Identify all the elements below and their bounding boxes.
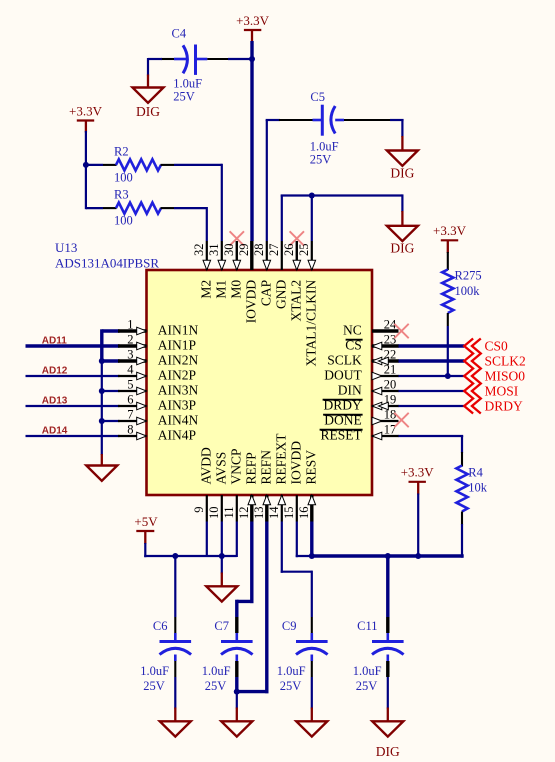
ground (C7) — [221, 708, 252, 737]
wire AD12 (pin 4) — [26, 375, 120, 377]
pin 8 AIN4P — [118, 423, 196, 443]
svg-text:C6: C6 — [153, 619, 168, 633]
svg-text:R3: R3 — [114, 188, 129, 202]
svg-text:AIN1N: AIN1N — [158, 323, 199, 338]
svg-text:AIN2N: AIN2N — [158, 353, 199, 368]
wire C6 top lead — [174, 556, 176, 641]
svg-text:AD13: AD13 — [42, 396, 68, 407]
svg-text:SCLK: SCLK — [327, 353, 362, 368]
power +3.3V (R275) — [433, 223, 467, 253]
wire R275 bottom lead to MISO0 net — [447, 313, 449, 376]
wire pin 3 to bus — [102, 359, 120, 362]
pin 22 SCLK — [327, 348, 398, 368]
resistor R4 10k — [456, 466, 487, 512]
svg-text:1.0uF: 1.0uF — [277, 664, 306, 678]
svg-text:M2: M2 — [198, 280, 213, 299]
svg-text:26: 26 — [282, 244, 296, 257]
wire AVSS ground stub — [221, 556, 223, 574]
capacitor C11 — [353, 619, 404, 693]
ground DIG (C4) — [133, 75, 164, 120]
wire C4 right lead — [197, 58, 253, 61]
svg-text:100: 100 — [114, 214, 133, 228]
svg-text:DIG: DIG — [390, 166, 414, 181]
wire pin 16 (RESV) down to bus — [310, 522, 313, 557]
svg-text:MOSI: MOSI — [485, 383, 519, 398]
wire C5 left lead — [279, 119, 322, 121]
svg-text:9: 9 — [192, 507, 206, 513]
ground (input bus) — [86, 454, 117, 481]
wire pin 1 to ground bus (thick) — [102, 329, 120, 361]
svg-text:1.0uF: 1.0uF — [140, 664, 169, 678]
no-connect X pin 18 — [394, 413, 408, 427]
wire DRDY (pin 19) — [398, 405, 464, 407]
wire C9 bottom lead — [310, 655, 313, 709]
node junction AVSS ground — [219, 553, 225, 559]
svg-text:6: 6 — [127, 393, 133, 407]
svg-text:20: 20 — [384, 378, 397, 392]
wire pin 9 (AVDD) down to bus — [206, 522, 208, 558]
svg-text:3: 3 — [127, 348, 133, 362]
capacitor C9 — [277, 619, 328, 693]
wire R4 top lead — [461, 452, 463, 467]
svg-text:U13: U13 — [55, 240, 77, 255]
wire +5V bus to pin 9 — [144, 555, 237, 557]
svg-text:1.0uF: 1.0uF — [310, 139, 339, 153]
wire C11 bottom lead — [386, 655, 389, 709]
svg-text:AIN4N: AIN4N — [158, 413, 199, 428]
node junction C11 / bus — [385, 553, 391, 559]
ground (C6) — [160, 708, 191, 737]
svg-text:16: 16 — [297, 507, 311, 520]
wire GND net down to DIG — [401, 194, 403, 212]
ground DIG (C5) — [387, 136, 418, 181]
pin 15 IOVDD — [282, 441, 304, 522]
capacitor C5 — [310, 90, 339, 166]
svg-text:4: 4 — [127, 363, 134, 377]
svg-text:12: 12 — [237, 507, 251, 520]
wire R3 left lead — [86, 207, 117, 209]
pin 12 REFP — [237, 452, 259, 521]
svg-text:AVDD: AVDD — [199, 447, 214, 485]
wire C11 top lead — [386, 556, 389, 641]
pin 32 M2 — [192, 241, 214, 299]
svg-text:7: 7 — [127, 408, 133, 422]
wire C5 right lead — [335, 120, 403, 137]
wire ground bus (thin part) — [101, 361, 103, 455]
svg-text:REFEXT: REFEXT — [274, 433, 289, 485]
capacitor C6 — [140, 619, 191, 693]
svg-text:R4: R4 — [468, 466, 483, 480]
svg-text:AIN3P: AIN3P — [158, 398, 196, 413]
svg-text:AD12: AD12 — [42, 366, 68, 377]
svg-text:1: 1 — [127, 318, 133, 332]
pin 25 XTAL1/CLKIN — [297, 241, 319, 366]
no-connect X pin 30 — [230, 231, 244, 245]
svg-text:XTAL2: XTAL2 — [288, 280, 303, 322]
svg-text:DIG: DIG — [136, 104, 160, 119]
wire R4 bottom lead to IOVDD bus — [461, 512, 463, 558]
svg-text:10k: 10k — [468, 481, 488, 495]
wire pin 11 (VNCP) down — [236, 522, 238, 558]
wire C7 bottom lead — [236, 655, 239, 692]
svg-text:DOUT: DOUT — [324, 368, 362, 383]
svg-text:IOVDD: IOVDD — [289, 441, 304, 485]
capacitor C7 — [202, 619, 253, 693]
svg-text:+5V: +5V — [134, 514, 158, 529]
pin 27 GND — [267, 241, 289, 309]
no-connect X pin 24 — [394, 324, 408, 338]
svg-text:18: 18 — [384, 408, 397, 422]
svg-text:AD11: AD11 — [42, 336, 67, 347]
wire pin 14 (REFEXT) down to C9 — [281, 522, 312, 642]
wire AD11 (pin 2) — [26, 344, 120, 347]
svg-text:21: 21 — [384, 363, 397, 377]
svg-text:25V: 25V — [205, 679, 227, 693]
svg-text:31: 31 — [207, 244, 221, 257]
wire C7 ground stub — [236, 692, 238, 709]
svg-text:25: 25 — [297, 244, 311, 257]
power +3.3V (R2/R3 supply) — [69, 103, 103, 132]
svg-text:DIN: DIN — [338, 383, 362, 398]
pin 9 AVDD — [192, 447, 214, 522]
svg-text:M1: M1 — [213, 280, 228, 299]
node junction C7 / REFN — [234, 689, 240, 695]
pin 18 DONE — [323, 408, 398, 428]
node junction pin 25 / GND net — [309, 193, 315, 199]
svg-text:C4: C4 — [172, 27, 187, 41]
power +5V — [134, 514, 158, 544]
pin 24 NC — [343, 318, 398, 338]
svg-text:M0: M0 — [228, 280, 243, 299]
pin 6 AIN3P — [118, 393, 196, 413]
pin 7 AIN4N — [118, 408, 199, 428]
wire pin 28 (CAP) up to C5 — [266, 120, 280, 241]
svg-text:25V: 25V — [280, 679, 302, 693]
pin 13 REFN — [252, 450, 274, 522]
node junction C4 / +3.3V — [249, 56, 255, 62]
svg-text:DIG: DIG — [376, 744, 400, 759]
wire R3 right lead to pin 32 — [161, 207, 207, 241]
power +3.3V (IOVDD pin 29) — [236, 13, 270, 44]
pin 3 AIN2N — [118, 348, 199, 368]
svg-text:SCLK2: SCLK2 — [485, 353, 526, 368]
wire pin 27 (GND) up — [281, 196, 403, 242]
svg-text:ADS131A04IPBSR: ADS131A04IPBSR — [55, 256, 159, 271]
wire AD13 (pin 6) — [26, 405, 120, 407]
wire +3.3V to pin 29 (IOVDD) — [250, 41, 253, 241]
svg-text:CS0: CS0 — [485, 338, 509, 353]
node junction +3.3V / IOVDD bus — [415, 553, 421, 559]
wire REFN (pin 13) to C7 — [237, 522, 269, 694]
svg-text:+3.3V: +3.3V — [69, 103, 103, 118]
svg-text:GND: GND — [273, 280, 288, 309]
svg-text:30: 30 — [222, 244, 236, 257]
svg-text:+3.3V: +3.3V — [401, 465, 435, 480]
node junction R275 / DOUT — [445, 373, 451, 379]
svg-text:25V: 25V — [356, 679, 378, 693]
svg-text:28: 28 — [252, 244, 266, 257]
pin 5 AIN3N — [118, 378, 199, 398]
op-amp U13 ADS131A04IPBSR body — [147, 270, 373, 495]
svg-text:15: 15 — [282, 507, 296, 520]
svg-text:17: 17 — [384, 423, 397, 437]
wire pin 15 (IOVDD) down to bus — [296, 522, 312, 558]
svg-text:NC: NC — [343, 323, 362, 338]
pin 2 AIN1P — [118, 333, 196, 353]
node junction pin 7 — [99, 418, 105, 424]
wire C4 left lead — [148, 58, 187, 76]
svg-text:AD14: AD14 — [42, 426, 68, 437]
svg-text:+3.3V: +3.3V — [236, 13, 270, 28]
resistor R275 100k — [442, 269, 481, 314]
svg-text:14: 14 — [267, 506, 281, 519]
pin 23 CS — [345, 333, 398, 353]
svg-text:AIN3N: AIN3N — [158, 383, 199, 398]
ground DIG (C11) — [372, 708, 403, 760]
svg-text:R2: R2 — [114, 144, 129, 158]
wire +3.3V down to IOVDD bus — [417, 494, 419, 557]
wire +3.3V down to R2 junction — [85, 131, 87, 166]
wire junction down to R3 — [85, 165, 87, 209]
svg-text:CAP: CAP — [258, 280, 273, 306]
svg-text:AVSS: AVSS — [214, 452, 229, 485]
svg-text:100k: 100k — [455, 284, 481, 298]
pin 16 RESV — [297, 450, 319, 522]
pin 20 DIN — [338, 378, 399, 398]
svg-text:5: 5 — [127, 378, 133, 392]
pin 1 AIN1N — [118, 318, 199, 338]
svg-text:DRDY: DRDY — [485, 398, 524, 413]
pin 11 VNCP — [222, 448, 244, 521]
svg-text:RESV: RESV — [304, 450, 319, 485]
svg-text:25V: 25V — [173, 89, 195, 103]
svg-text:29: 29 — [237, 244, 251, 256]
svg-text:REFN: REFN — [259, 450, 274, 485]
node junction C6 — [172, 553, 178, 559]
wire pin 7 to bus — [102, 420, 120, 422]
wire MISO0 (pin 21) — [398, 375, 464, 377]
svg-text:1.0uF: 1.0uF — [353, 664, 382, 678]
pin 10 AVSS — [207, 452, 229, 522]
svg-text:DIG: DIG — [390, 240, 414, 255]
svg-text:VNCP: VNCP — [229, 448, 244, 484]
wire pin 10 (AVSS) down — [221, 522, 223, 557]
no-connect X pin 26 — [290, 231, 304, 245]
svg-text:+3.3V: +3.3V — [433, 223, 467, 238]
svg-text:C5: C5 — [310, 90, 325, 104]
pin 4 AIN2P — [118, 363, 196, 383]
svg-text:32: 32 — [192, 244, 206, 257]
svg-text:C9: C9 — [282, 619, 297, 633]
pin 21 DOUT — [324, 363, 398, 383]
svg-text:23: 23 — [384, 333, 397, 347]
node junction pin 5 — [99, 388, 105, 394]
pin 31 M1 — [207, 241, 229, 299]
resistor R3 — [114, 188, 161, 228]
wire C6 bottom lead — [174, 655, 177, 709]
wire pin 25 up to GND net — [311, 196, 313, 242]
svg-text:IOVDD: IOVDD — [243, 280, 258, 324]
svg-text:2: 2 — [127, 333, 133, 347]
svg-text:100: 100 — [114, 170, 133, 184]
svg-text:25V: 25V — [143, 679, 165, 693]
svg-text:MISO0: MISO0 — [485, 368, 526, 383]
wire +5V down — [144, 543, 146, 557]
pin 28 CAP — [252, 241, 274, 306]
svg-text:R275: R275 — [455, 269, 482, 283]
wire RESET pin 17 to R4 — [398, 436, 463, 453]
svg-text:REFP: REFP — [244, 452, 259, 484]
resistor R2 — [114, 144, 161, 184]
svg-text:C11: C11 — [357, 619, 377, 633]
off-sheet connector chevrons (CS0/SCLK2/MISO0/MOSI/DRDY) — [464, 339, 473, 414]
node junction pin 16 / bus — [309, 553, 315, 559]
ground (C9) — [296, 708, 327, 737]
svg-text:10: 10 — [207, 507, 221, 520]
pin 30 no-connect stub — [236, 241, 238, 270]
wire pin 12 (REFP) down to C7 — [237, 522, 254, 642]
svg-text:AIN2P: AIN2P — [158, 368, 196, 383]
pin 14 REFEXT — [267, 433, 289, 522]
pin 30 M0 — [222, 241, 244, 299]
wire CS0 (pin 23) — [398, 344, 464, 347]
pin 29 IOVDD — [237, 241, 259, 323]
wire AD14 (pin 8) — [26, 435, 120, 437]
svg-text:11: 11 — [222, 507, 236, 519]
svg-text:AIN1P: AIN1P — [158, 338, 196, 353]
svg-text:1.0uF: 1.0uF — [202, 664, 231, 678]
svg-text:8: 8 — [127, 423, 133, 437]
node junction pin 3 — [99, 358, 105, 364]
capacitor C4 — [172, 27, 203, 104]
wire SCLK2 (pin 22) — [398, 359, 464, 362]
power +3.3V (IOVDD bus) — [401, 465, 435, 495]
pin 17 RESET — [320, 423, 399, 443]
svg-text:C7: C7 — [214, 619, 229, 633]
wire R2 left lead — [86, 164, 117, 166]
ground (AVSS/VNCP) — [206, 573, 237, 602]
wire IOVDD bus — [312, 554, 464, 557]
wire MOSI (pin 20) — [398, 390, 464, 392]
pin 26 XTAL2 — [282, 241, 304, 321]
svg-text:AIN4P: AIN4P — [158, 428, 196, 443]
svg-text:XTAL1/CLKIN: XTAL1/CLKIN — [303, 280, 318, 367]
ground DIG (pins 27/25) — [387, 211, 418, 255]
wire R275 top lead — [447, 252, 449, 270]
svg-text:13: 13 — [252, 507, 266, 520]
pin 26 no-connect stub — [296, 241, 298, 270]
pin 19 DRDY — [323, 393, 399, 413]
svg-text:25V: 25V — [310, 152, 332, 166]
wire R2 right lead to pin 31 — [161, 164, 222, 241]
svg-text:27: 27 — [267, 244, 281, 257]
wire pin 5 to bus — [102, 390, 120, 392]
node junction R2/R3 — [83, 162, 89, 168]
